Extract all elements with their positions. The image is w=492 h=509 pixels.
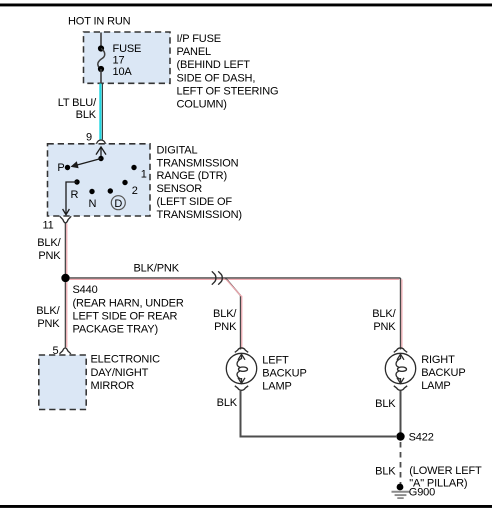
wire BLK left lamp to S422: [241, 391, 397, 437]
wire BLK/PNK pin 11 to S440: [65, 224, 66, 277]
svg-text:(LOWER LEFT: (LOWER LEFT: [409, 465, 482, 477]
svg-text:BACKUP: BACKUP: [262, 367, 306, 379]
label BLK/PNK left lamp: [213, 308, 237, 333]
note I/P fuse panel location: [177, 33, 279, 111]
node R: [74, 179, 79, 184]
svg-text:DIGITAL: DIGITAL: [157, 144, 198, 156]
label S440 note: [73, 284, 184, 335]
electronic day/night mirror box: [39, 355, 86, 410]
svg-text:P: P: [57, 162, 64, 174]
wire BLK dashed S422 to G900: [400, 442, 402, 484]
svg-text:LEFT OF STEERING: LEFT OF STEERING: [177, 86, 279, 98]
svg-text:2: 2: [132, 185, 138, 197]
svg-text:SENSOR: SENSOR: [157, 183, 203, 195]
svg-text:S422: S422: [409, 431, 434, 443]
svg-text:9: 9: [86, 132, 92, 144]
svg-text:D: D: [114, 198, 122, 210]
connector arc pin 9: [93, 140, 108, 147]
svg-text:R: R: [71, 189, 79, 201]
connector arc right lamp bottom: [394, 386, 407, 391]
svg-text:LT BLU/: LT BLU/: [58, 97, 97, 109]
splice S440: [61, 274, 69, 282]
arrow R to pin 11: [63, 182, 77, 215]
inline connector C4001: [212, 271, 223, 284]
svg-text:PNK: PNK: [373, 321, 396, 333]
svg-text:BLK: BLK: [217, 397, 238, 409]
svg-text:BLK/: BLK/: [213, 308, 237, 320]
svg-text:G900: G900: [409, 487, 435, 499]
svg-text:ELECTRONIC: ELECTRONIC: [91, 354, 161, 366]
svg-text:BLK: BLK: [375, 466, 396, 478]
svg-text:11: 11: [42, 220, 53, 232]
svg-text:LAMP: LAMP: [262, 380, 291, 392]
svg-text:BLK: BLK: [76, 109, 97, 121]
wire fuse feed top: [100, 33, 102, 49]
svg-text:(LEFT SIDE OF: (LEFT SIDE OF: [157, 196, 233, 208]
svg-text:LEFT: LEFT: [262, 354, 289, 366]
svg-text:FUSE: FUSE: [113, 43, 142, 55]
svg-text:LAMP: LAMP: [421, 380, 450, 392]
label left backup lamp: [262, 354, 306, 392]
bottom border bar: [0, 505, 492, 508]
note DTR sensor location: [157, 144, 242, 220]
left backup lamp: [226, 353, 256, 383]
node N: [89, 189, 94, 194]
svg-text:BLK/: BLK/: [372, 308, 396, 320]
svg-text:PNK: PNK: [38, 250, 61, 262]
svg-text:BACKUP: BACKUP: [421, 367, 465, 379]
svg-text:MIRROR: MIRROR: [91, 380, 135, 392]
svg-text:HOT IN RUN: HOT IN RUN: [68, 16, 131, 28]
wire BLK/PNK branch diagonal to left lamp: [226, 278, 242, 350]
svg-text:S440: S440: [73, 284, 98, 296]
connector arc left lamp bottom: [235, 386, 248, 391]
wire BLK/PNK down to right lamp: [401, 278, 402, 350]
svg-text:10A: 10A: [113, 66, 133, 78]
node 1: [131, 165, 136, 170]
svg-text:(REAR HARN, UNDER: (REAR HARN, UNDER: [73, 297, 184, 309]
wire BLK/PNK S440 to mirror: [65, 282, 66, 348]
svg-text:1: 1: [141, 169, 147, 181]
svg-text:PNK: PNK: [37, 318, 60, 330]
svg-text:N: N: [89, 198, 97, 210]
svg-text:DAY/NIGHT: DAY/NIGHT: [91, 367, 149, 379]
wire fuse to box bottom: [100, 69, 102, 84]
wire BLK right lamp to S422: [400, 391, 402, 433]
svg-text:(BEHIND LEFT: (BEHIND LEFT: [177, 59, 251, 71]
node 2: [122, 180, 127, 185]
svg-text:PANEL: PANEL: [177, 46, 212, 58]
arrow to pin 9: [96, 147, 106, 159]
fuse F17: [98, 45, 105, 72]
wire BLK/PNK S440 to connector: [70, 278, 226, 279]
value label FUSE 17 10A: [113, 43, 142, 78]
svg-text:TRANSMISSION): TRANSMISSION): [157, 209, 242, 221]
DTR sensor box: [48, 144, 151, 216]
svg-text:RIGHT: RIGHT: [421, 354, 455, 366]
note ground location: [409, 465, 482, 490]
top border bar: [0, 4, 492, 7]
svg-text:17: 17: [113, 54, 125, 66]
label LT BLU/BLK: [58, 97, 97, 121]
node D: [108, 188, 113, 193]
label BLK/PNK pin 11 wire: [37, 237, 61, 262]
svg-text:BLK/: BLK/: [37, 237, 61, 249]
connector arc left lamp top: [235, 348, 248, 353]
label D circled: [111, 196, 125, 210]
connector arc pin 11: [60, 216, 71, 223]
label right backup lamp: [421, 354, 465, 392]
node common: [98, 156, 103, 161]
ground G900: [392, 484, 410, 499]
svg-text:LEFT SIDE OF REAR: LEFT SIDE OF REAR: [73, 310, 178, 322]
svg-text:BLK: BLK: [375, 398, 396, 410]
svg-text:BLK/: BLK/: [36, 305, 60, 317]
wire LT BLU/BLK: [100, 84, 102, 141]
svg-text:SIDE OF DASH,: SIDE OF DASH,: [177, 73, 256, 85]
splice S422: [396, 432, 404, 440]
I/P fuse panel box: [84, 32, 171, 83]
label BLK/PNK mirror wire: [36, 305, 60, 330]
svg-text:TRANSMISSION: TRANSMISSION: [157, 157, 239, 169]
svg-text:COLUMN): COLUMN): [177, 99, 227, 111]
connector arc pin 5: [60, 348, 71, 354]
wire BLK/PNK connector to right corner: [226, 278, 401, 279]
arrow wiper to P: [71, 159, 102, 169]
connector arc right lamp top: [394, 348, 407, 353]
svg-text:RANGE (DTR): RANGE (DTR): [157, 170, 227, 182]
svg-text:PNK: PNK: [214, 321, 237, 333]
right backup lamp: [385, 353, 415, 383]
svg-text:I/P FUSE: I/P FUSE: [177, 33, 221, 45]
node P: [65, 165, 70, 170]
svg-text:BLK/PNK: BLK/PNK: [134, 263, 180, 275]
note electronic day/night mirror: [91, 354, 161, 393]
svg-text:PACKAGE TRAY): PACKAGE TRAY): [73, 324, 158, 336]
label BLK/PNK right lamp: [372, 308, 396, 333]
